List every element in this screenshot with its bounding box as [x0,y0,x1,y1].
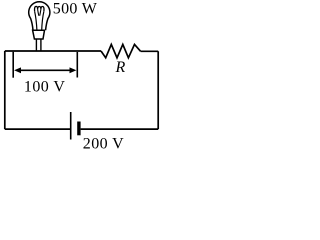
lamp bulb (glass envelope) [29,2,50,52]
lamp filament coil [35,6,45,11]
lamp filament inner V [38,9,39,15]
wire right [157,51,159,129]
wire bottom right segment [81,128,159,130]
dimension bar right [76,52,78,78]
dimension bar left [12,52,14,78]
wire bottom left segment [5,128,71,130]
lamp filament legs [35,11,37,30]
battery thick plate (short) [77,122,80,136]
voltage arrow shaft [18,69,73,71]
lamp screw base [33,30,45,39]
lamp stem to wire [35,39,37,52]
resistor R [101,44,141,57]
voltage arrow head right [70,67,77,73]
svg-text:200 V: 200 V [83,136,124,153]
svg-text:100 V: 100 V [24,79,66,96]
voltage arrow head left [14,67,21,73]
wire left [4,51,6,129]
battery thin plate (long) [70,112,72,140]
svg-text:R: R [115,59,126,76]
wire top [5,50,101,52]
svg-text:500 W: 500 W [53,0,98,17]
wire top right segment [141,50,159,52]
